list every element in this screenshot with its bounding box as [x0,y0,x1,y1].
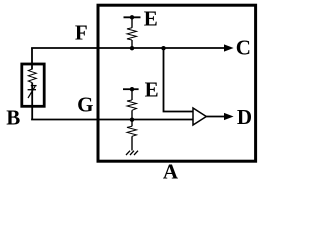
svg-text:A: A [163,159,179,183]
variable-arrow lower barb in B [28,89,36,91]
resistor R3 top lead [131,120,133,127]
supply bar for resistor R1 [124,16,141,18]
buffer U1 (triangle) [193,108,206,125]
arrowhead to D [224,113,234,120]
resistor R3 zigzag [127,126,137,136]
junction dot divider tap on wire G [130,118,134,122]
ground symbol [126,151,138,155]
wire G: horizontal line to buffer [31,119,194,121]
svg-text:F: F [75,21,88,45]
wire: drop from F to buffer upper input [164,48,195,112]
block A (main box) [98,5,256,161]
supply bar for resistor R2 [123,88,139,90]
variable-arrow upper barb in B [31,85,37,87]
variable-arrow diagonal in B [28,86,35,98]
junction dot F to drop wire [161,46,165,50]
resistor R1 zigzag [127,28,137,40]
wire through B below resistor [31,83,33,120]
resistor R3 bottom lead [131,136,133,150]
svg-text:D: D [237,105,252,129]
resistor R1 lead [131,17,133,28]
svg-text:E: E [145,78,159,102]
svg-text:G: G [77,93,93,117]
junction dot R1 top [130,15,134,19]
resistor R2 zigzag [127,100,137,110]
resistor R1 bottom lead [131,40,133,48]
resistor R2 lead [131,89,133,100]
wire F: horizontal line to arrow C [31,47,225,49]
svg-text:C: C [236,36,251,60]
resistor R2 bottom lead [131,110,133,119]
sensor box B [22,64,44,106]
resistor in B (zigzag) [28,69,36,83]
svg-text:E: E [144,6,158,30]
junction dot R2 top [130,87,134,91]
junction dot R1 on wire F [130,46,134,50]
svg-text:B: B [6,105,20,129]
arrowhead to C [224,44,234,51]
wire: B top lead up to F line [31,48,33,70]
wire: buffer output [206,116,225,118]
